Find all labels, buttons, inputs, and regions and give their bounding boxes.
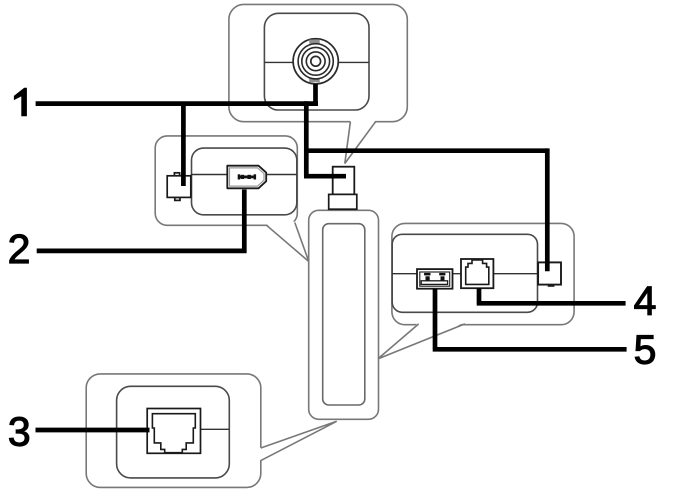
BNC bayonet lug bottom [309,78,320,82]
BNC bayonet lug top [309,40,320,44]
callout bubble 1 (BNC panel) [229,4,407,121]
leader line 2 [37,190,245,254]
bubble 1 panel mid-line [264,61,369,63]
FireWire (DV) connector U-shape [227,166,266,189]
cable plug lower [329,194,357,209]
cable to plug [304,174,346,179]
rear RJ45 inner shape [466,260,489,285]
rear LAN RJ45 jack outer box [461,259,493,288]
BNC stem [313,84,318,104]
bubble 3 panel mid-line [201,428,230,430]
svg-text:2: 2 [8,226,31,272]
callout bubble 3 tail [259,421,336,460]
leader line 3 [36,428,150,433]
svg-text:5: 5 [634,327,657,373]
svg-text:4: 4 [634,278,657,324]
BNC connector barrel [293,39,338,84]
thick leader lines [36,84,627,430]
bubble 3 inner panel [117,386,230,478]
callout bubble 2 tail [266,222,308,262]
leader line 4 [477,288,626,303]
cable to DC stub: horizontal [304,148,547,153]
callout bubble 4 tail [378,323,465,359]
USB port outer [417,269,453,289]
LAN RJ45 jack inner shape [152,414,195,453]
cable to DC stub: vertical [545,148,550,271]
DC-in connector box (pointed by 1) [167,173,191,201]
FireWire pin icon [238,174,256,179]
BNC center pin [311,56,321,66]
label 1 [14,88,27,117]
BNC ring 3 [306,52,325,71]
drop line from 1-line [304,101,309,176]
bubble 1 inner panel [264,13,369,110]
callout bubble 1 tail [345,120,376,163]
BNC ring 1 [298,44,333,79]
cable plug upper [333,167,355,195]
USB port inner frame [420,272,450,286]
DC connector stub [538,262,561,286]
callout bubble 2 (FireWire panel) [155,136,297,225]
leader line 1 horizontal [36,101,318,106]
svg-text:3: 3 [8,409,31,455]
bubble 2 panel mid-line [191,174,297,176]
leader line 5 [433,289,627,350]
bubble 4 panel mid-line [392,273,538,275]
USB contact tabs [424,273,445,281]
camcorder body outer [309,210,379,419]
LAN RJ45 jack outer box [147,409,200,454]
bubble 2 inner panel [192,148,297,215]
camcorder body inner panel [323,224,365,405]
USB tongue bar [421,281,447,285]
bubble 4 inner panel [392,234,537,312]
callout bubble 3 (LAN panel) [86,374,261,488]
BNC ring 2 [302,47,330,75]
callout bubble 4 (rear panel: USB / LAN / DC) [392,223,574,324]
leader 1 branch down to DC box [181,104,186,186]
